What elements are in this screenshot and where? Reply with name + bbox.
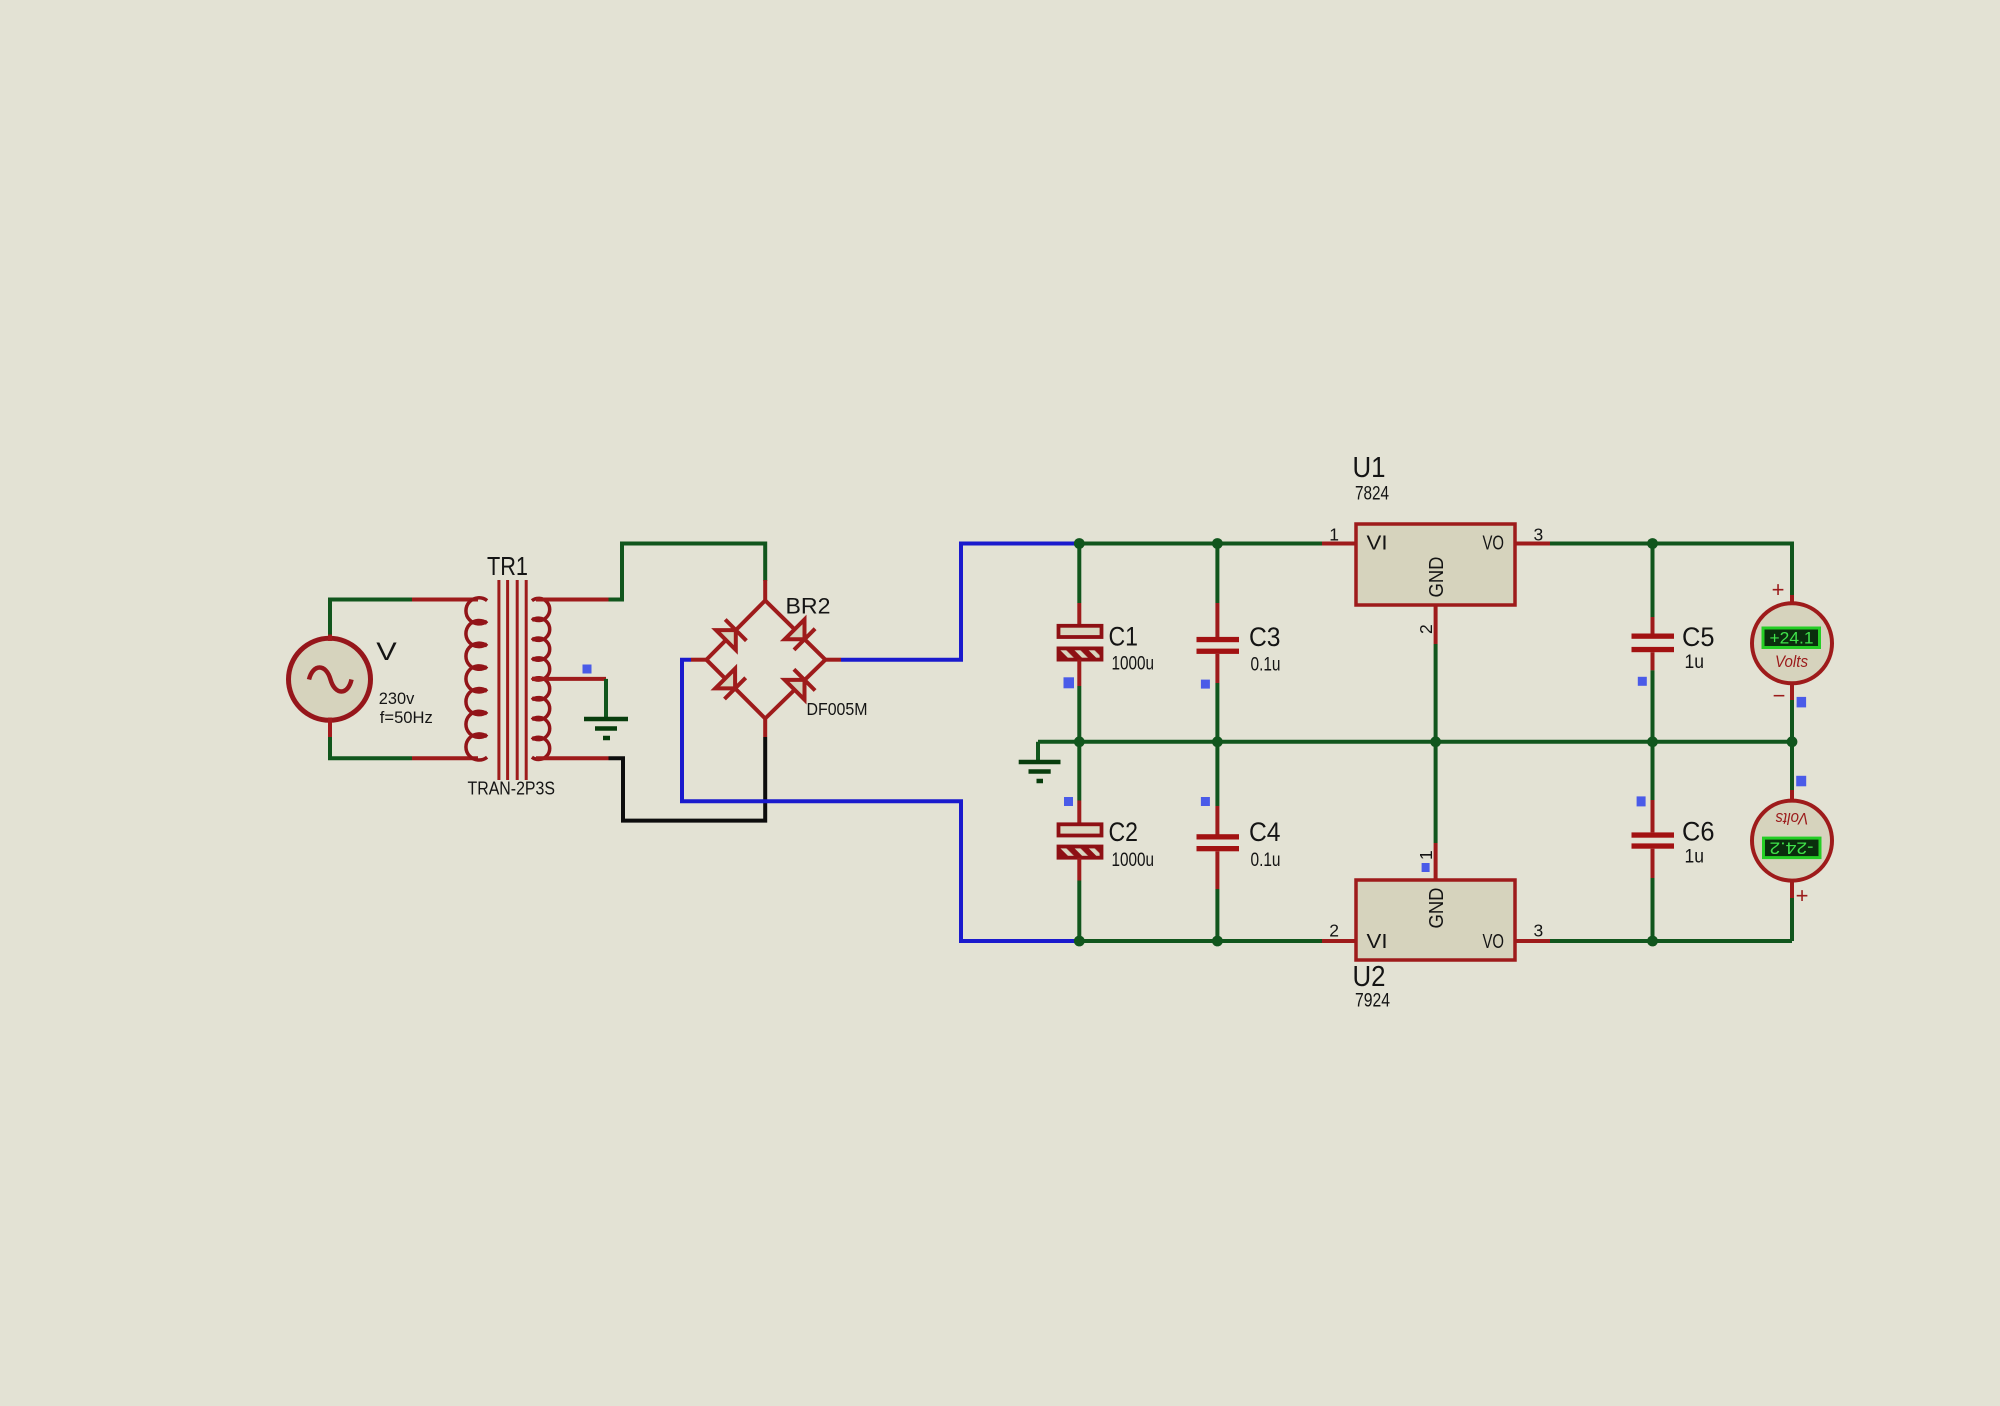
pin U1 VO (red) [1515,542,1550,546]
svg-text:Volts: Volts [1775,809,1808,828]
svg-text:1u: 1u [1685,652,1705,673]
svg-text:BR2: BR2 [786,594,831,619]
pin U1 VI (red) [1322,542,1356,546]
svg-text:DF005M: DF005M [807,699,868,719]
svg-text:1000u: 1000u [1112,850,1155,871]
voltmeter VM1 top pin (red) [1790,595,1794,604]
junction mid rail / voltmeters [1787,736,1798,747]
pin U2 VI (red) [1322,939,1356,943]
svg-text:-24.2: -24.2 [1770,838,1814,857]
svg-text:0.1u: 0.1u [1251,850,1281,871]
wire source bottom to primary (green) [330,737,412,758]
wire top rail right (green) [1550,544,1792,596]
capacitor C1 (polarised 1000u) [1059,544,1102,742]
capacitor C4 (0.1u) [1197,742,1240,941]
transformer TR1 secondary winding [532,598,550,759]
svg-text:VO: VO [1483,533,1505,555]
pin bridge right (red stub) [825,658,841,662]
probe marker (C3) [1201,680,1210,689]
svg-text:1: 1 [1416,850,1436,860]
diode D1 (left-top arm, arrow toward top) [716,620,746,650]
probe marker (U2 pin 1) [1422,863,1430,872]
svg-text:TR1: TR1 [487,551,528,581]
junction mid rail / U regulators GND [1430,736,1441,747]
svg-text:TRAN-2P3S: TRAN-2P3S [468,779,556,799]
svg-text:0.1u: 0.1u [1251,655,1281,676]
probe marker (C6) [1637,796,1646,806]
probe marker (C4) [1201,797,1210,806]
svg-text:7824: 7824 [1355,483,1389,505]
ground (mid rail) [1019,742,1061,781]
junction bottom rail / C2 [1074,936,1085,947]
svg-text:3: 3 [1534,525,1544,545]
svg-text:+: + [1772,577,1785,602]
svg-text:1000u: 1000u [1112,654,1155,675]
svg-text:VI: VI [1367,533,1388,555]
diode D4 (bottom-right arm, arrow toward right) [785,669,815,699]
svg-text:7924: 7924 [1355,990,1390,1012]
svg-text:C6: C6 [1682,817,1715,847]
svg-text:U1: U1 [1353,452,1386,484]
pin secondary centre tap (red) [532,677,606,681]
svg-text:V: V [376,638,397,666]
probe marker (C5) [1638,677,1647,686]
voltmeter VM1 body [1752,603,1832,683]
pin primary top (red) [412,598,478,602]
wire centre tap to ground (green) [604,679,608,718]
wire VM2 to bottom rail (green) [1790,898,1794,941]
pin secondary top (red) [536,598,609,602]
pin bridge left (red stub) [691,658,706,662]
voltmeter VM1 bottom pin (red) [1790,683,1794,700]
svg-text:C3: C3 [1249,622,1281,652]
voltmeter VM2 body (inverted) [1752,801,1832,881]
svg-text:C4: C4 [1249,817,1281,847]
svg-text:GND: GND [1426,888,1448,929]
junction bottom rail / C6 [1647,936,1658,947]
probe marker (transformer centre tap) [583,665,592,674]
voltmeter VM2 display -24.2 (inverted) [1764,838,1821,858]
svg-text:VI: VI [1367,931,1388,953]
regulator U2 body (7924) [1356,880,1515,960]
capacitor C6 (1u) [1632,742,1675,941]
diode D2 (top-right arm, arrow toward right) [785,620,815,650]
wire top rail left (green) [1079,542,1322,546]
junction mid rail / C3 [1212,736,1223,747]
svg-text:+24.1: +24.1 [1770,628,1814,647]
svg-text:VO: VO [1483,931,1505,953]
pin bridge top (red stub) [763,580,767,601]
wire bottom rail right (green) [1550,939,1792,943]
regulator U1 body (7824) [1356,524,1515,605]
wire mid rail to VM2 (green) [1790,742,1794,790]
voltmeter VM1 display +24.1 [1763,628,1820,648]
svg-text:C1: C1 [1109,622,1139,652]
pin primary bottom (red) [412,756,478,760]
wire VM1 to mid rail (green) [1790,700,1794,742]
wire source top to primary (green) [330,600,412,635]
ground (transformer centre tap) [584,719,628,738]
svg-text:2: 2 [1329,921,1339,941]
wire bridge left to bottom rail (blue) [682,660,1077,941]
wire bridge right to top rail (blue) [841,544,1077,660]
svg-text:2: 2 [1416,624,1436,634]
U1 GND pin wire (red then green) [1434,605,1438,644]
transformer TR1 core [499,580,526,780]
pin secondary bottom (red) [536,756,609,760]
wire secondary top to bridge (green) [609,544,766,600]
sine symbol inside source [309,668,352,692]
junction bottom rail / C4 [1212,936,1223,947]
svg-text:f=50Hz: f=50Hz [380,709,433,727]
svg-text:1: 1 [1329,525,1339,545]
pin U2 VO (red) [1515,939,1550,943]
svg-text:230v: 230v [379,690,415,708]
capacitor C5 (1u) [1632,544,1675,742]
diode D3 (left-bottom arm, arrow toward bottom) [715,669,745,699]
wire secondary bottom to bridge (black) [609,737,766,821]
junction top rail / C1 [1074,538,1085,549]
svg-text:−: − [1773,683,1786,708]
U2 GND pin wire (green then red) [1434,742,1438,843]
capacitor C2 (polarised 1000u) [1059,742,1102,941]
probe marker (C1) [1064,677,1075,688]
transformer TR1 primary winding [466,598,487,760]
junction top rail / C3 [1212,538,1223,549]
probe marker (VM2 top) [1796,776,1806,787]
wire bottom rail left (green) [1079,939,1322,943]
svg-text:Volts: Volts [1775,652,1808,671]
capacitor C3 (0.1u) [1197,544,1240,742]
junction mid rail / C1 [1074,736,1085,747]
wire mid ground rail (green) [1038,740,1792,744]
bridge BR2 diamond frame [706,601,825,719]
probe marker (C2) [1064,797,1073,806]
voltmeter VM2 top pin (red) [1790,790,1794,801]
junction mid rail / C5 [1647,736,1658,747]
AC source V: circle body [289,638,371,720]
svg-text:+: + [1796,883,1809,908]
svg-text:U2: U2 [1353,961,1386,993]
svg-text:GND: GND [1426,557,1448,598]
probe marker (VM1 negative) [1797,697,1807,708]
svg-text:1u: 1u [1685,846,1705,867]
svg-text:C2: C2 [1109,817,1139,847]
svg-text:3: 3 [1534,921,1544,941]
voltmeter VM2 bottom pin (red) [1790,881,1794,898]
junction top rail / C5 [1647,538,1658,549]
svg-text:C5: C5 [1682,622,1715,652]
pin bridge bottom (red stub) [763,719,767,738]
